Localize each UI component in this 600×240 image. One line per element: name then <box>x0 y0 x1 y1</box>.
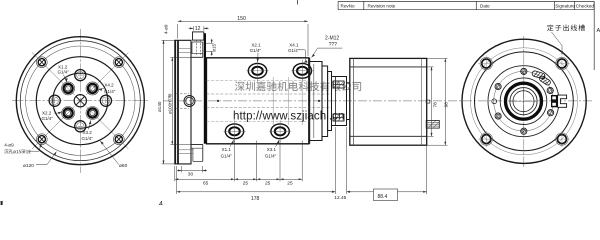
svg-text:98: 98 <box>444 102 450 108</box>
leader X2.1 <box>257 53 259 62</box>
label X2.2 <box>42 110 54 121</box>
corner artifact 1 <box>0 201 3 205</box>
port X3.1 bottom <box>269 120 291 142</box>
hub circle r35.5 <box>488 66 559 137</box>
dim 88.4 <box>347 191 427 193</box>
svg-text:Signature: Signature <box>555 3 575 8</box>
bolt hole ticks <box>478 56 494 72</box>
svg-text:4-ø9: 4-ø9 <box>163 24 168 34</box>
svg-text:ø15: ø15 <box>212 43 217 51</box>
leader 2-M12 <box>312 48 343 57</box>
leader X3.2 <box>89 120 91 129</box>
screw 30 <box>547 87 553 93</box>
dim 178 bottom <box>177 127 427 194</box>
svg-text:25: 25 <box>243 180 249 186</box>
plain circle E <box>100 95 111 106</box>
centerline vertical <box>79 29 81 173</box>
leader stator outlet <box>552 32 563 55</box>
svg-text:X4.2: X4.2 <box>104 83 114 88</box>
bearing dark ring <box>506 83 542 119</box>
dim 78 motor <box>427 67 434 136</box>
port X4.1 top <box>291 60 313 82</box>
coupling neck <box>347 83 350 120</box>
svg-text:25: 25 <box>265 180 271 186</box>
svg-text:ø100H7/f8: ø100H7/f8 <box>167 93 172 114</box>
dim 12.45 <box>332 191 350 193</box>
diagonal centerline NW <box>32 53 74 95</box>
flange screw circle <box>184 96 195 107</box>
frame tick top <box>297 0 299 5</box>
diagonal centerline SW <box>32 106 74 148</box>
screw 90 <box>521 68 527 74</box>
centerline horizontal <box>12 100 149 102</box>
center port X <box>74 95 86 107</box>
flange hidden hole lines <box>176 94 189 109</box>
svg-text:88.4: 88.4 <box>378 194 388 200</box>
port SW dark <box>62 107 75 120</box>
label 2-M12 <box>325 36 339 49</box>
body heavy left edge <box>204 33 206 144</box>
plain circle W <box>49 95 60 106</box>
label 4-o9 counterbore <box>4 142 30 153</box>
svg-text:65: 65 <box>203 180 209 186</box>
svg-text:X2.1: X2.1 <box>251 43 261 48</box>
svg-text:G1/4": G1/4" <box>288 48 300 53</box>
bore circle b <box>513 91 534 112</box>
revision table right border <box>593 1 595 70</box>
spigot step <box>191 42 203 161</box>
svg-text:30: 30 <box>188 172 194 178</box>
svg-text:12.45: 12.45 <box>334 195 346 201</box>
svg-text:ø120: ø120 <box>23 163 34 169</box>
right view inner flange circle <box>475 52 574 151</box>
plain circle N <box>75 70 86 81</box>
svg-text:X3.2: X3.2 <box>83 130 93 135</box>
svg-text:Checked: Checked <box>576 3 595 8</box>
label X3.2 <box>82 130 94 141</box>
body block <box>207 58 309 144</box>
svg-text:G1/4": G1/4" <box>221 153 233 158</box>
svg-text:2-M12: 2-M12 <box>325 36 339 42</box>
coupling housing <box>332 77 347 126</box>
port X1.1 bottom <box>224 120 246 142</box>
leader X4.2 <box>98 89 104 90</box>
adapter plate B <box>328 72 332 131</box>
svg-text:12: 12 <box>195 26 201 32</box>
svg-text:G1/4": G1/4" <box>42 116 54 121</box>
svg-text:G1/4": G1/4" <box>104 89 116 94</box>
leader X1.1 <box>230 140 234 147</box>
right bolt hole NW <box>480 57 492 69</box>
dim 150 top <box>178 21 308 56</box>
hatch wedge on hub <box>531 70 551 86</box>
screw 270 <box>521 128 527 134</box>
adapter plate A <box>322 66 328 137</box>
svg-text:ø140: ø140 <box>157 101 162 112</box>
plain circle S <box>75 121 86 132</box>
port NE dark <box>86 82 99 95</box>
svg-text:G1/4": G1/4" <box>250 48 262 53</box>
leader 4-o9 <box>28 143 42 151</box>
left vertical dims <box>162 40 191 164</box>
label X2.1 <box>250 43 262 53</box>
svg-text:X4.1: X4.1 <box>289 43 299 48</box>
dim 65 25 25 25 <box>175 141 302 182</box>
port SE dark <box>86 107 99 120</box>
svg-text:X1.2: X1.2 <box>58 64 68 69</box>
svg-text:178: 178 <box>251 196 260 202</box>
svg-text:Date: Date <box>480 3 490 8</box>
hub pin left <box>492 99 497 104</box>
M12 boss <box>193 32 204 56</box>
screw 150 <box>495 83 501 89</box>
label X4.1 <box>288 43 300 53</box>
hub circle r23.3 <box>500 78 547 125</box>
step circle d60r <box>20 41 140 161</box>
svg-text:78: 78 <box>433 102 439 108</box>
bolt hole SW <box>36 134 47 145</box>
cap block <box>309 58 322 144</box>
svg-text:G1/4": G1/4" <box>82 136 94 141</box>
terminal box <box>551 95 567 107</box>
right view vertical centerline <box>523 36 525 167</box>
svg-text:X3.1: X3.1 <box>267 147 277 152</box>
screw bolt circle r30 <box>494 71 554 131</box>
diagonal centerline NE <box>86 53 128 95</box>
leader X2.2 <box>55 112 62 114</box>
svg-text:RevNo: RevNo <box>341 3 355 8</box>
leader X1.2 <box>64 75 67 82</box>
watermark company name paths <box>235 81 361 91</box>
rabbet top box <box>179 42 203 54</box>
right bolt hole NE <box>556 57 568 69</box>
boss circle r27.5 <box>53 73 108 128</box>
label X4.2 <box>104 83 116 94</box>
body interior line b <box>288 77 290 125</box>
rabbet bottom box <box>179 148 203 161</box>
svg-text:4: 4 <box>159 201 163 205</box>
bolt hole SE <box>113 134 124 145</box>
body interior line c <box>301 77 303 125</box>
leader X4.1 <box>299 50 306 63</box>
flange plate <box>175 40 191 164</box>
svg-text:ø60: ø60 <box>119 163 128 169</box>
svg-text:X2.2: X2.2 <box>42 110 52 115</box>
body interior line a <box>272 77 274 125</box>
port NW dark <box>62 82 75 95</box>
dim 30 bottom <box>177 166 207 173</box>
inner circle r44 <box>36 57 124 145</box>
leader dia60 <box>100 141 119 165</box>
dim 98 motor <box>427 58 448 145</box>
motor shaft end cap <box>426 100 430 103</box>
screw 330 <box>548 110 554 116</box>
svg-text:G1/4": G1/4" <box>265 153 277 158</box>
motor body <box>350 58 427 145</box>
dim 88.4 boxed text <box>374 189 398 201</box>
right bolt hole SE <box>556 133 568 145</box>
leader X3.1 <box>276 140 280 147</box>
leader dia120 <box>36 152 57 165</box>
svg-text:G1/4": G1/4" <box>58 70 70 75</box>
body hidden bore lines <box>207 94 332 108</box>
right view bolt circle <box>471 48 578 155</box>
svg-text:4-ø9: 4-ø9 <box>4 142 14 147</box>
right bolt hole SW <box>480 133 492 145</box>
bolt hole NE <box>113 57 124 68</box>
svg-text:X1.1: X1.1 <box>222 147 232 152</box>
label X1.2 <box>58 64 70 74</box>
junction dot A <box>217 100 219 102</box>
label stator outlet <box>547 24 585 31</box>
label X3.1 <box>265 147 277 158</box>
right view outer circle <box>462 39 586 163</box>
bolt hole NW <box>36 57 47 68</box>
svg-text:25: 25 <box>287 180 293 186</box>
port X2.1 top <box>247 60 269 82</box>
svg-text:???: ??? <box>329 42 338 48</box>
junction dot B <box>318 100 320 102</box>
bolt circle <box>26 46 135 155</box>
main centerline <box>163 100 592 102</box>
dim 12 <box>189 26 209 30</box>
bore circle a <box>510 88 537 115</box>
screw 210 <box>495 113 501 119</box>
bore crosshair <box>510 88 537 115</box>
diagonal centerline SE <box>86 106 128 148</box>
svg-text:Revision note: Revision note <box>368 3 396 8</box>
svg-text:150: 150 <box>237 16 246 22</box>
outer flange circle <box>16 37 144 165</box>
label X1.1 <box>221 147 233 158</box>
svg-text:A: A <box>597 28 600 34</box>
motor shaft stub <box>426 120 439 128</box>
revision table frame <box>338 1 594 9</box>
dim dia15 <box>204 39 213 56</box>
